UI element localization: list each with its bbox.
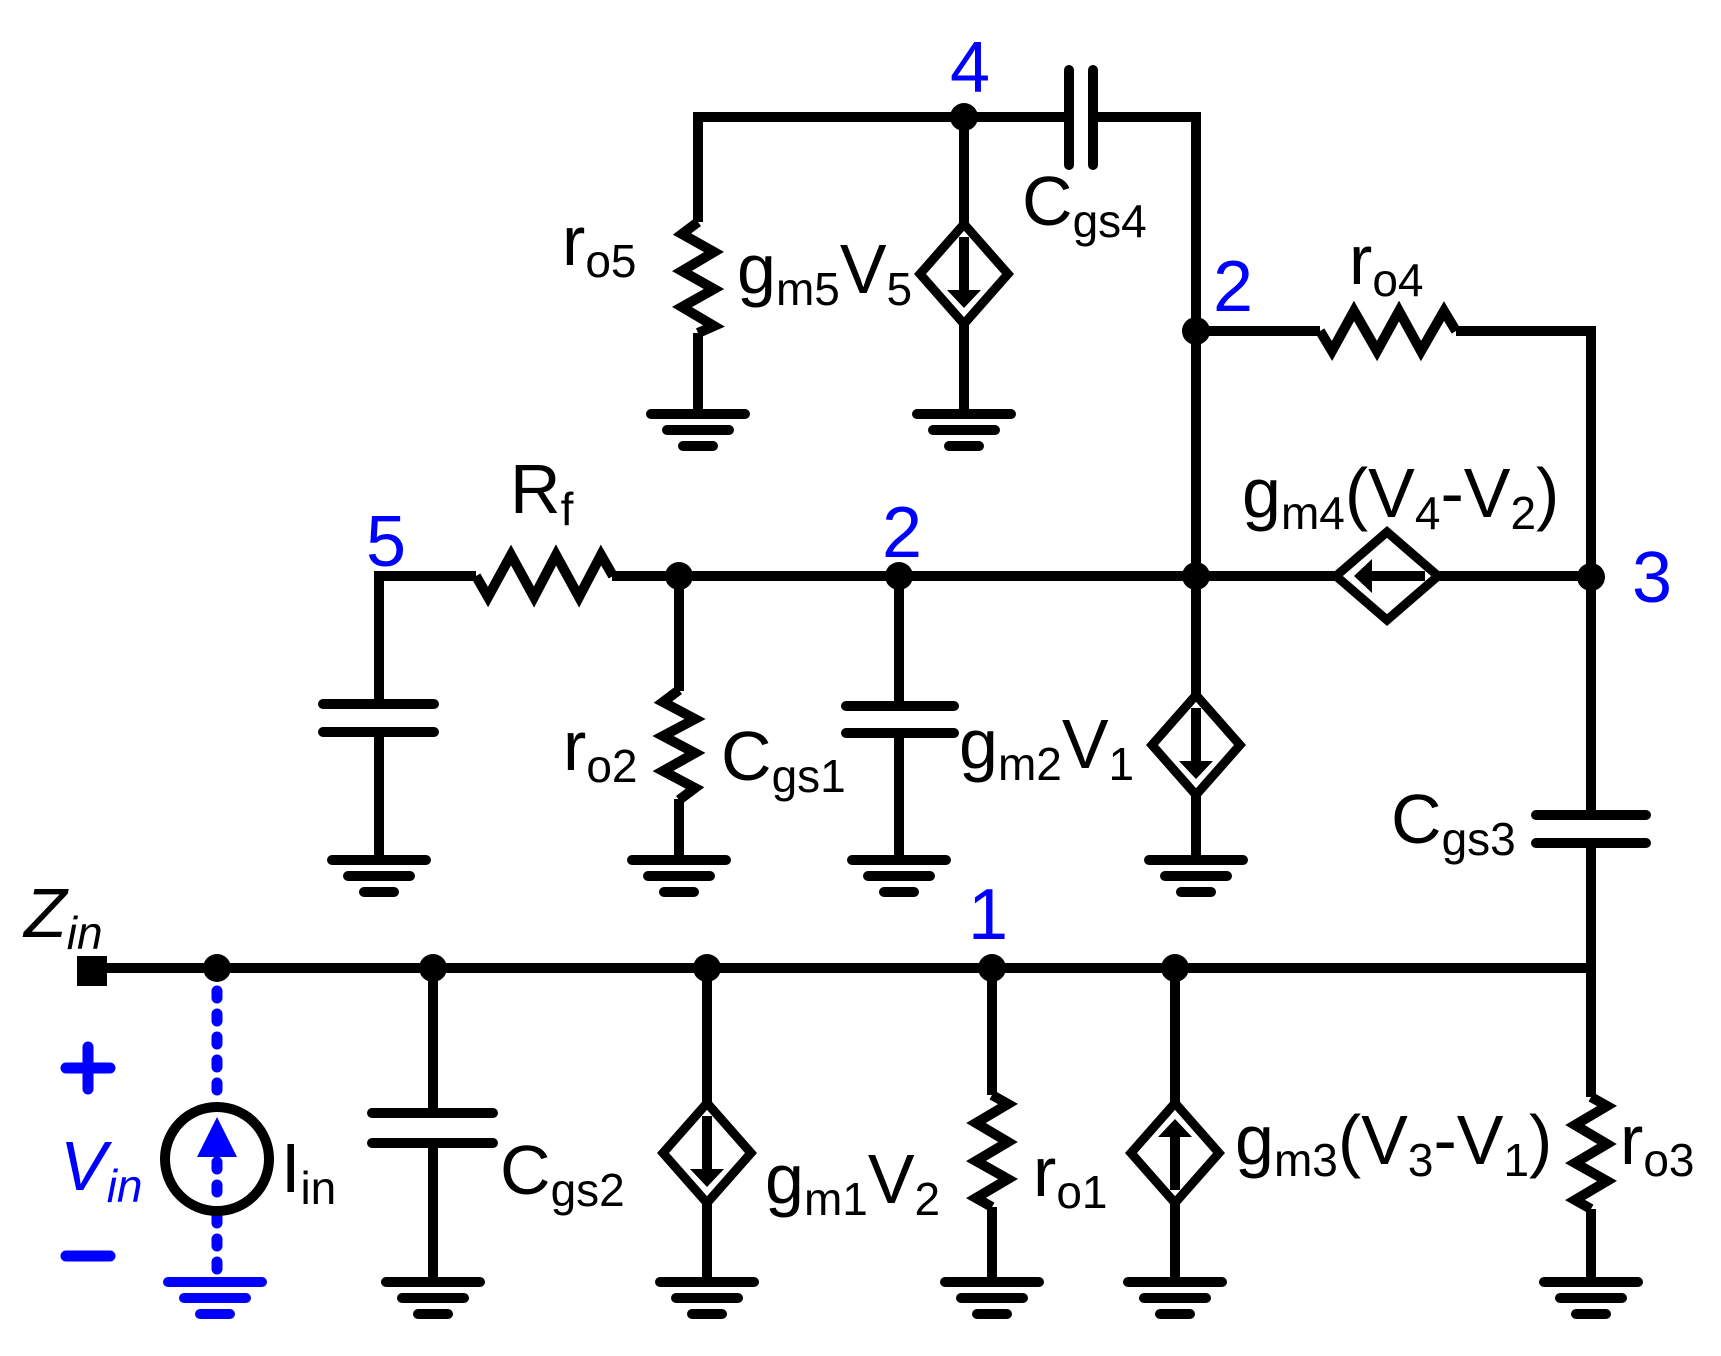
arrow gm4 left bbox=[1372, 571, 1425, 581]
ground under Cgs5 bbox=[332, 860, 426, 892]
wire ro2 top from bus bbox=[674, 576, 684, 691]
resistor ro3 bbox=[1575, 1097, 1607, 1209]
ground under ro2 bbox=[632, 860, 726, 892]
node 3 junction dot bbox=[1577, 563, 1605, 591]
current source Iin dashed shaft inside bbox=[212, 1162, 223, 1208]
ground under Cgs1 bbox=[852, 860, 946, 892]
ground under ro5 bbox=[651, 414, 745, 446]
svg-text:5: 5 bbox=[366, 502, 406, 582]
wire Cgs5 bottom to ground bbox=[374, 737, 384, 860]
current source Iin dashed lead upper bbox=[212, 991, 223, 1106]
plus sign Vin bbox=[66, 1047, 110, 1089]
wire ro1 top from bus bbox=[987, 968, 997, 1095]
svg-text:2: 2 bbox=[1213, 247, 1253, 327]
terminal square Zin bbox=[77, 956, 107, 986]
arrow gm3 up bbox=[1170, 1136, 1180, 1190]
resistor Rf bbox=[476, 555, 613, 597]
wire Cgs2 bottom to ground bbox=[428, 1147, 438, 1282]
wire Cgs2 top from bus bbox=[428, 968, 438, 1109]
ground under gm2V1 bbox=[1149, 860, 1243, 892]
wire Cgs3 top from node 3 bbox=[1586, 577, 1596, 811]
junction dot bus-gm2V1 bbox=[1182, 562, 1210, 590]
ground under ro1 bbox=[945, 1282, 1039, 1314]
wire gm4 right tip to node 3 bbox=[1433, 571, 1591, 581]
ground under Cgs2 bbox=[386, 1282, 480, 1314]
ground under gm5V5 bbox=[917, 414, 1011, 446]
wire node2 to ro4 left bbox=[1196, 326, 1320, 336]
wire node5 vertical and bus to Rf bbox=[379, 576, 476, 699]
minus sign Vin bbox=[66, 1251, 110, 1262]
dependent source gm5V5 diamond bbox=[920, 224, 1008, 324]
junction dot bus-gm3 bbox=[1161, 954, 1189, 982]
capacitor Cgs3 plates bbox=[1536, 810, 1646, 820]
dependent source gm4 diamond bbox=[1336, 532, 1438, 620]
node 2 junction dot (mid bus) bbox=[885, 562, 913, 590]
junction dot bus-ro2 bbox=[665, 562, 693, 590]
ground blue under Iin bbox=[168, 1282, 262, 1314]
wire gm5V5 bottom to ground bbox=[959, 320, 969, 414]
capacitor Cgs2 plates bbox=[372, 1108, 493, 1118]
arrow gm1V2 down bbox=[702, 1116, 712, 1170]
dependent source gm3 diamond bbox=[1131, 1103, 1219, 1203]
arrow gm5V5 down bbox=[959, 237, 969, 291]
wire Cgs3 bottom through bottom bus to ro3 bbox=[1586, 847, 1596, 1097]
resistor ro1 bbox=[976, 1095, 1008, 1207]
ground under gm1V2 bbox=[660, 1282, 754, 1314]
wire Cgs1 top from bus bbox=[894, 576, 904, 702]
wire gm3 top from bus bbox=[1170, 968, 1180, 1107]
wire gm2V1 bottom to ground bbox=[1191, 791, 1201, 860]
dependent source gm2V1 diamond bbox=[1152, 695, 1240, 795]
wire ro2 bottom to ground bbox=[674, 799, 684, 860]
capacitor Cgs1 plates bbox=[846, 701, 954, 711]
svg-text:2: 2 bbox=[882, 493, 922, 573]
node 1 junction dot bbox=[978, 954, 1006, 982]
junction dot bus-Iin bbox=[203, 954, 231, 982]
wire ro3 bottom to ground bbox=[1586, 1209, 1596, 1282]
wire gm3 bottom to ground bbox=[1170, 1199, 1180, 1282]
wire ro5 bottom to ground bbox=[693, 333, 703, 414]
wire node4 to gm5V5 top bbox=[959, 117, 969, 228]
dependent source gm1V2 diamond bbox=[663, 1103, 751, 1203]
wire bottom bus node 1 bbox=[92, 963, 1591, 973]
wire ro4 right to corner down to node 3 bbox=[1456, 331, 1591, 577]
wire gm1V2 top from bus bbox=[702, 968, 712, 1107]
capacitor Cgs5 plates bbox=[323, 699, 434, 709]
wire gm1V2 bottom to ground bbox=[702, 1199, 712, 1282]
arrow gm2V1 down bbox=[1191, 708, 1201, 762]
ground under gm3 bbox=[1128, 1282, 1222, 1314]
node 2 junction dot (top) bbox=[1182, 317, 1210, 345]
resistor ro4 bbox=[1320, 311, 1456, 351]
current source Iin circle bbox=[165, 1107, 269, 1211]
svg-text:3: 3 bbox=[1632, 538, 1672, 618]
resistor ro2 bbox=[663, 690, 695, 800]
node 4 junction dot bbox=[950, 103, 978, 131]
junction dot bus-gm1V2 bbox=[693, 954, 721, 982]
current source Iin arrow head bbox=[197, 1117, 237, 1157]
wire ro1 bottom to ground bbox=[987, 1207, 997, 1282]
capacitor Cgs4 plates bbox=[1064, 70, 1074, 165]
junction dot bus-Cgs2 bbox=[419, 954, 447, 982]
wire Cgs4 right plate to corner down to node 2 and bus bbox=[1093, 117, 1196, 576]
resistor ro5 bbox=[682, 222, 714, 333]
wire middle bus Rf to gm4 bbox=[612, 571, 1341, 581]
svg-text:4: 4 bbox=[950, 28, 990, 108]
svg-text:1: 1 bbox=[968, 875, 1008, 955]
ground under ro3 bbox=[1544, 1282, 1638, 1314]
wire gm2V1 top from bus bbox=[1191, 576, 1201, 699]
wire top-left: node4 bus to ro5 drop bbox=[698, 117, 1069, 222]
wire Cgs1 bottom to ground bbox=[894, 737, 904, 860]
current source Iin dashed lead lower bbox=[212, 1216, 223, 1276]
